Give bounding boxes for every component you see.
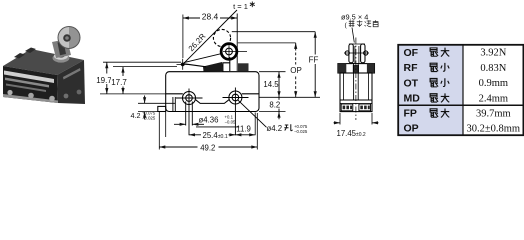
svg-text:8.2: 8.2	[269, 100, 280, 109]
svg-text:39.7mm: 39.7mm	[476, 108, 511, 119]
svg-text:OT: OT	[404, 77, 419, 89]
svg-text:(: (	[345, 22, 348, 29]
svg-text:−0.025: −0.025	[142, 115, 156, 120]
svg-text:FP: FP	[404, 108, 417, 120]
svg-text:ø9.5 × 4: ø9.5 × 4	[341, 13, 368, 22]
svg-text:28.4: 28.4	[202, 12, 219, 22]
svg-text:OP: OP	[404, 123, 419, 135]
svg-text:49.2: 49.2	[200, 143, 215, 152]
svg-text:OF: OF	[404, 47, 419, 59]
svg-text:14.5: 14.5	[263, 80, 279, 89]
svg-text:17.45±0.2: 17.45±0.2	[337, 129, 366, 138]
svg-text:t = 1: t = 1	[233, 2, 248, 11]
svg-text:OP: OP	[290, 66, 302, 75]
svg-text:MD: MD	[404, 93, 421, 105]
svg-text:17.7: 17.7	[111, 78, 127, 87]
svg-text:ø4.36: ø4.36	[199, 116, 219, 125]
svg-text:ø4.2: ø4.2	[267, 124, 283, 133]
svg-text:11.9: 11.9	[236, 125, 251, 134]
svg-text:−0.05: −0.05	[225, 120, 236, 125]
svg-text:0.9mm: 0.9mm	[479, 78, 508, 89]
svg-text:4.2: 4.2	[131, 111, 141, 120]
svg-text:RF: RF	[404, 62, 419, 74]
svg-text:30.2±0.8mm: 30.2±0.8mm	[466, 123, 520, 134]
svg-text:19.7: 19.7	[96, 76, 112, 85]
svg-text:−0.025: −0.025	[294, 129, 308, 134]
svg-text:0.83N: 0.83N	[480, 63, 506, 74]
svg-text:2.4mm: 2.4mm	[479, 93, 508, 104]
svg-text:FF: FF	[309, 55, 319, 64]
svg-text:3.92N: 3.92N	[480, 48, 506, 59]
